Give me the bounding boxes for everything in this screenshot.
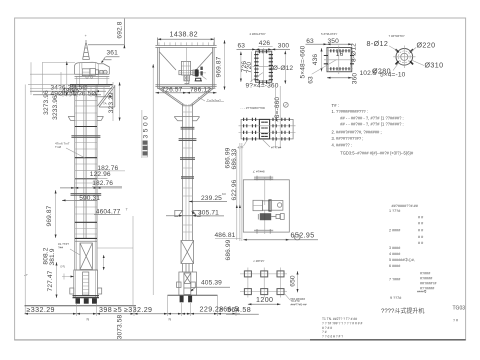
detail B plate (wide) (327, 48, 352, 72)
svg-text:c ##T#Y: c ##T#Y (253, 259, 264, 263)
svg-text:9 ??7#: 9 ??7# (390, 296, 402, 300)
labels 2/5 dark blobs (200, 67, 202, 70)
splice plate outline (241, 119, 293, 138)
svg-text:122.96: 122.96 (90, 171, 111, 178)
svg-text:4. ####?? :: 4. ####?? : (332, 142, 353, 147)
plan view square (243, 180, 289, 232)
svg-text:969.87: 969.87 (216, 56, 223, 77)
svg-text:398: 398 (99, 306, 112, 314)
bolt arrows around flange (395, 49, 399, 53)
shaft rails (183, 104, 193, 241)
svg-text:? #: ? # (453, 319, 458, 323)
boot base plate (73, 296, 100, 298)
detail A bolt ticks top/bottom (259, 50, 266, 84)
svg-text:63: 63 (306, 38, 314, 45)
svg-text:361: 361 (107, 50, 119, 57)
svg-text:#?####: #?#### (420, 277, 433, 281)
svg-text:7A: 7A (103, 102, 107, 106)
svg-text:⊙?|: ⊙?| (60, 265, 65, 269)
head box lines (75, 74, 110, 76)
svg-text:Ø280: Ø280 (372, 68, 391, 76)
head box side wings (179, 71, 182, 75)
hood inner verticals (79, 62, 98, 84)
svg-text:????斗式提升机: ????斗式提升机 (381, 307, 424, 315)
svg-text:≥332.29: ≥332.29 (27, 306, 55, 314)
svg-text:652.95: 652.95 (291, 231, 315, 239)
svg-text:###??#5-##: ###??#5-## (291, 302, 307, 306)
detail A bolt ticks left/right (254, 55, 273, 80)
svg-text:381.9: 381.9 (49, 248, 56, 265)
svg-text:? ? d d: ? ? d d A ? # ? (322, 335, 343, 339)
svg-text:7 ##?##T#Y: 7 ##?##T#Y (389, 34, 405, 38)
svg-text:T1 TN. ##2T? ? T? #: T1 TN. ##2T? ? T? # ## (322, 317, 357, 321)
svg-text:323.29: 323.29 (108, 92, 115, 113)
boot side brackets (177, 282, 181, 288)
svg-text:300: 300 (278, 42, 290, 49)
boot X-brace box (80, 243, 92, 270)
platform top beam (155, 46, 216, 48)
shaft flanges (181, 127, 195, 129)
plan drive assembly (253, 200, 263, 210)
plan bottom pad (254, 229, 273, 234)
shaft dark section joints (75, 127, 97, 223)
axis line (180, 72, 206, 74)
dim 323.29 rotated + ext lines (113, 82, 120, 121)
head platform wide line (70, 84, 113, 86)
svg-text:5 ######中心#,: 5 ######中心#, (389, 257, 415, 262)
svg-text:7: 7 (126, 208, 128, 212)
svg-text:7 ?###: 7 ?### (389, 278, 401, 282)
bottom dim line (25, 313, 241, 315)
svg-text:#??T##: #??T## (271, 146, 282, 150)
splice extension verticals (276, 86, 281, 148)
svg-text:436: 436 (312, 54, 319, 66)
svg-text:182.76: 182.76 (92, 180, 113, 187)
left extension lines (25, 61, 75, 314)
svg-text:4 ####: 4 #### (389, 252, 401, 256)
svg-text:≥332.29: ≥332.29 (124, 306, 152, 314)
svg-text:Tm?s?ss?: Tm?s?ss? (207, 98, 221, 102)
boot housing (74, 270, 98, 298)
X-brace box (181, 241, 194, 264)
svg-text:##?####??#.##: ##?####??#.## (392, 204, 419, 208)
detail B side bolt ticks (324, 56, 354, 64)
detail B leader (312, 60, 337, 75)
svg-text:3273.96: 3273.96 (43, 90, 50, 115)
flange plates (71, 136, 102, 195)
svg-text:∠ #T##8: ∠ #T##8 (253, 169, 265, 173)
motor (dark) (195, 69, 199, 76)
svg-text:+: + (85, 34, 87, 38)
plan center axis (264, 177, 266, 234)
hood (head housing dome) (75, 62, 110, 74)
plan lower assembly (260, 213, 271, 220)
svg-text:2Ø-Ø12: 2Ø-Ø12 (269, 65, 293, 72)
boot ladder channel (83, 272, 89, 295)
detail A center lines (253, 48, 276, 86)
svg-text:1438.82: 1438.82 (170, 30, 198, 38)
svg-text:727.47: 727.47 (47, 270, 54, 291)
svg-text:405.39: 405.39 (201, 279, 222, 286)
svg-text:63: 63 (307, 76, 314, 84)
boot side brackets (70, 288, 74, 294)
foundation grid lines (240, 268, 287, 298)
horizontal link line boot-top level (98, 247, 134, 249)
long extension line between towers (132, 216, 134, 306)
svg-text:Ø220: Ø220 (417, 42, 436, 50)
ground line (25, 305, 137, 307)
svg-text:3. ##?#??#??#? ;: 3. ##?#??#??#? ; (332, 136, 364, 141)
platform diagonals (159, 52, 212, 70)
svg-text:3500: 3500 (142, 113, 149, 138)
svg-text:? ? 7# ?## ? ?: ? ? 7# ?## ? ? ? ? ? # # # # (322, 321, 362, 325)
svg-text:TG03: TG03 (453, 305, 466, 311)
svg-text:1200: 1200 (256, 296, 273, 304)
svg-text:969.87: 969.87 (46, 205, 53, 226)
feet (180, 296, 184, 303)
svg-text:16: 16 (336, 51, 344, 58)
wing gussets (174, 117, 199, 121)
head drive: motor block (82, 69, 90, 76)
detail A right ext line (284, 51, 286, 84)
svg-text:#?###: #?### (420, 272, 431, 276)
svg-text:3233.96: 3233.96 (52, 95, 59, 120)
splice mid bold section (259, 119, 269, 138)
svg-text:360: 360 (352, 73, 359, 85)
svg-text:63: 63 (238, 42, 246, 49)
detail B center lines (324, 46, 354, 75)
svg-text:1 ?7?#: 1 ?7?# (389, 209, 401, 213)
svg-text:426: 426 (259, 40, 271, 47)
svg-text:3073.58: 3073.58 (117, 314, 124, 339)
foundation bolt squares row1 (244, 271, 251, 277)
svg-text:## - - ##?## - ?, #??# (1 ?: ## - - ##?## - ?, #??# (1 ??####? : (340, 115, 404, 120)
drive head box (181, 61, 190, 75)
svg-text:?##.##/###: ?##.##/### (290, 297, 305, 301)
svg-text:⌐?: ⌐? (24, 273, 28, 277)
boot housing (179, 272, 197, 295)
svg-text:650: 650 (290, 275, 297, 287)
support line (168, 294, 218, 296)
svg-text:5×48=-660: 5×48=-660 (299, 45, 306, 78)
svg-text:####号: ####号 (417, 289, 427, 294)
foundation bolt squares row2 (244, 289, 251, 295)
svg-text:564.58: 564.58 (227, 306, 251, 314)
wings at shaft top (68, 116, 103, 120)
splice horizontal center lines (239, 126, 296, 133)
svg-text:- - - #TT####??#D: - - - #TT####??#D (240, 106, 266, 110)
shaft light ties (75, 101, 97, 234)
svg-text:?##: ?## (58, 246, 63, 250)
svg-text:×8=-660: ×8=-660 (274, 97, 281, 123)
V braces (158, 88, 213, 105)
svg-text:8-Ø12: 8-Ø12 (350, 43, 357, 62)
lower wings (175, 210, 200, 216)
svg-text:N: N (87, 318, 90, 322)
svg-text:6 ####: 6 #### (389, 264, 401, 268)
stack dim lines (237, 143, 242, 241)
feet (anchor pads) (76, 298, 81, 304)
svg-text:2. ####?###??#, ?######: 2. ####?###??#, ?###### ; (332, 130, 382, 135)
splice bolt ticks rows (244, 124, 290, 134)
title table row 1 (322, 317, 458, 339)
svg-text:8-Ø12: 8-Ø12 (367, 40, 389, 48)
svg-text:4.??: 4.?? (238, 146, 244, 150)
svg-text:Tm8: Tm8 (55, 145, 61, 149)
detail B top dim line (306, 43, 353, 45)
foundation leader note (284, 293, 290, 300)
dim arrow 96.8 (95, 96, 112, 98)
plan dim line 652.95 (243, 239, 318, 241)
detail A leader (250, 73, 262, 82)
splice leaders (244, 139, 271, 147)
detail B bolt rows (326, 51, 353, 69)
svg-text:Ø310: Ø310 (425, 62, 444, 70)
railing ticks (159, 42, 214, 45)
svg-text:720: 720 (246, 62, 253, 74)
head drive: shaft line and wheel (99, 71, 108, 73)
detail B bottom dim line (327, 77, 352, 79)
svg-text:TGD3:5--#?### #(#)--##?# (: TGD3:5--#?### #(#)--##?# (×3/?)--5(6)# (340, 150, 414, 155)
small pulleys (86, 76, 88, 78)
hopper X-squares (184, 75, 187, 81)
plan top pad (254, 176, 273, 181)
right small dim arrows near boot (103, 255, 105, 270)
circular flange (396, 49, 413, 66)
platform columns (158, 47, 214, 88)
svg-text:## - - ##?## - ?, #??# (1 ?: ## - - ##?## - ?, #??# (1 ??####? : (340, 122, 404, 127)
detail A top dim line (237, 48, 291, 50)
right bracket strut (98, 85, 115, 107)
head drive: gearbox (90, 69, 95, 76)
svg-text:1. ??########??? :: 1. ??########??? : (332, 109, 368, 114)
circle-cross symbol (294, 234, 300, 240)
dim line 692.8 top (88, 19, 124, 48)
svg-text:N: N (169, 318, 172, 322)
light ties (183, 112, 193, 232)
motor foot bracket dark (195, 78, 202, 81)
splice bolt ticks mid columns (261, 122, 268, 136)
shaft rails (75, 85, 97, 270)
svg-text:4 ###L#T#Y: 4 ###L#T#Y (249, 32, 265, 36)
center axis vertical (186, 47, 188, 84)
dim cluster under head (30, 91, 106, 95)
splice top/bottom edge ticks (244, 118, 290, 141)
title block bottom dark line (310, 339, 466, 341)
small left dim at boot (62, 274, 74, 280)
platform floor (155, 85, 216, 87)
svg-text:##?###?#: ##?###?# (420, 282, 437, 286)
svg-text:≥5: ≥5 (114, 306, 123, 314)
head drive: coupling (95, 70, 98, 75)
svg-text:K3: K3 (222, 192, 226, 196)
svg-text:# ? # #: # ? # # (322, 326, 332, 330)
dim arrow row (60, 187, 122, 189)
suspension dim line (152, 64, 154, 295)
svg-text:5 #?#L#T#Y: 5 #?#L#T#Y (321, 32, 337, 36)
svg-text:T# :: T# : (332, 103, 339, 108)
svg-text:2 ####: 2 #### (389, 229, 401, 233)
svg-text:9?×4=-360: 9?×4=-360 (246, 82, 279, 89)
svg-text:? #: ? # (322, 330, 327, 334)
detail A plate (256, 51, 272, 82)
svg-text:692.8: 692.8 (116, 21, 123, 38)
svg-text:686.99: 686.99 (225, 239, 232, 260)
svg-text:3 ####: 3 #### (389, 246, 401, 250)
